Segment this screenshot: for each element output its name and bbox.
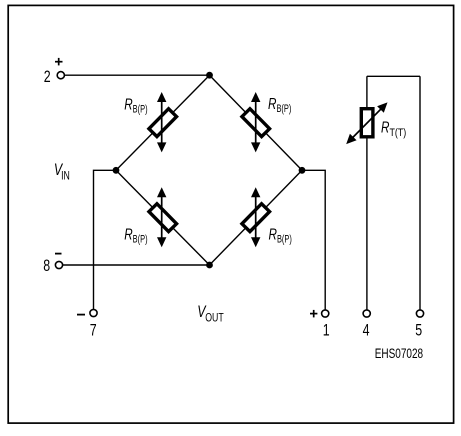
pressure arrow top-left resistor [157,92,166,152]
resistor RB(P) top-left [149,109,177,137]
resistor RB(P) top-right [242,109,270,137]
label RB(P) top-left [124,95,147,116]
minus sign at terminal 7 [77,314,85,316]
resistor RB(P) bottom-left [149,204,177,232]
wire terminal 2 to top node [65,74,210,76]
pin label 4 [363,322,370,340]
pin label 5 [415,322,422,340]
svg-text:7: 7 [90,322,97,340]
terminal 7 [90,309,97,316]
label RB(P) bottom-right [269,225,292,246]
terminal 8 [55,261,62,268]
terminal 1 [322,310,329,317]
pin label 8 [43,257,50,275]
label RB(P) top-right [268,94,291,115]
label RT(T) [381,118,406,140]
wire terminal 4 up through RT(T) [366,76,368,309]
pin label 2 [44,68,51,86]
pin label 1 [323,322,330,340]
terminal 5 [416,310,423,317]
resistor RT(T) [361,109,373,137]
figure code EHS07028 [375,345,424,361]
wire top node to right node [210,75,303,170]
wire top of RT branch [367,75,420,77]
svg-text:EHS07028: EHS07028 [375,345,424,361]
temperature arrow RT(T) [346,102,387,144]
plus sign at terminal 1 [310,310,317,318]
label VOUT [197,303,224,325]
wire top node to left node [116,75,210,170]
wire right node to terminal 1 [302,170,325,309]
minus sign at terminal 8 [55,253,62,255]
wire terminal 8 to bottom node [63,264,210,266]
svg-text:5: 5 [415,322,422,340]
wire left node to terminal 7 [94,170,117,309]
wire right node to bottom node [210,170,303,265]
node left junction [113,167,120,174]
node top junction [206,72,213,79]
wire down to terminal 5 [419,76,421,309]
pressure arrow bottom-right resistor [251,187,260,247]
label VIN [54,161,70,182]
svg-text:8: 8 [43,257,50,275]
pressure arrow top-right resistor [251,92,260,152]
svg-text:2: 2 [44,68,51,86]
pin label 7 [90,322,97,340]
label RB(P) bottom-left [124,225,147,246]
terminal 4 [363,310,370,317]
terminal 2 [57,72,64,79]
pressure arrow bottom-left resistor [157,187,166,247]
wire left node to bottom node [116,170,210,265]
node right junction [299,167,306,174]
node bottom junction [206,262,213,269]
resistor RB(P) bottom-right [242,204,270,232]
svg-text:4: 4 [363,322,370,340]
svg-text:1: 1 [323,322,330,340]
plus sign at terminal 2 [55,58,63,66]
